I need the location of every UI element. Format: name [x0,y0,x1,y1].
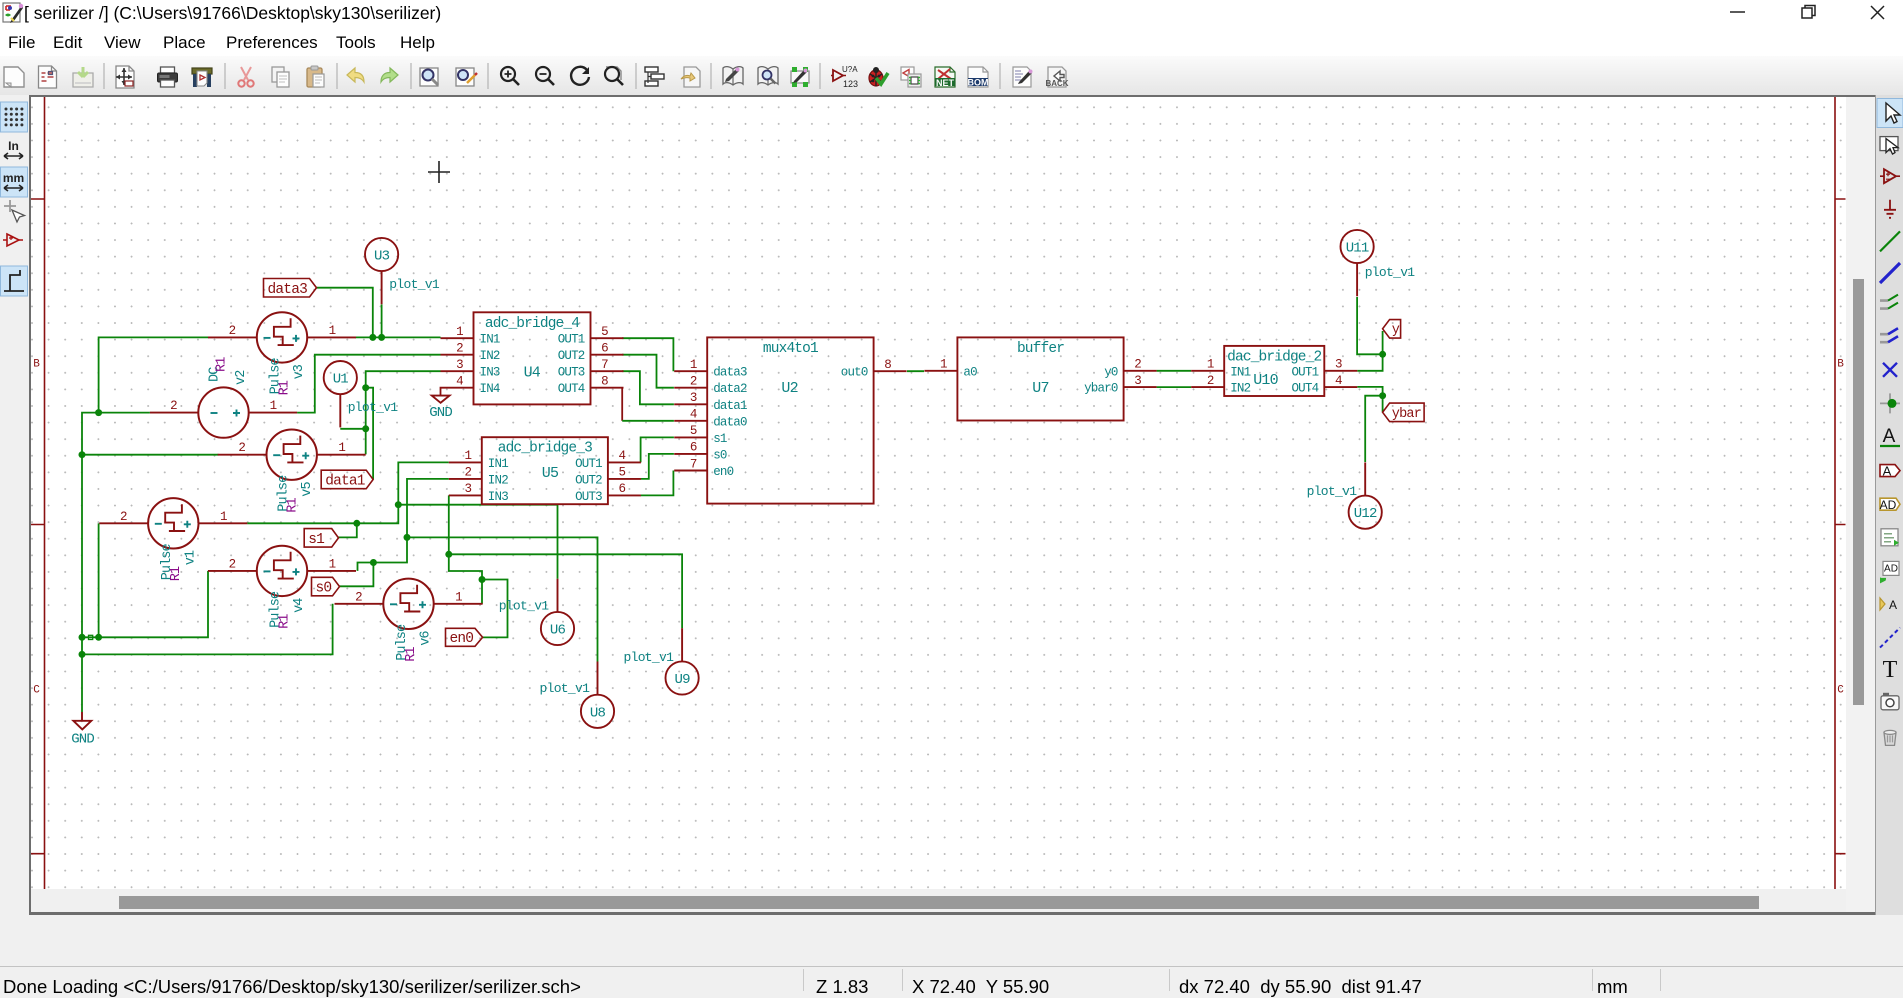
component adc_bridge_3 [449,437,641,504]
svg-text:NET: NET [936,78,955,88]
toolbar symbol library editor icon [723,67,743,85]
plot_v1 probe U1 [324,361,357,427]
right toolbar hierarchical sheet tool [1881,529,1899,546]
toolbar save icon [73,67,93,87]
svg-text:out0: out0 [841,366,868,380]
junction s0 [370,559,377,566]
toolbar print icon [158,67,178,87]
wire GND1 stub [81,708,83,712]
svg-text:6: 6 [690,441,697,455]
svg-text:1: 1 [270,399,277,413]
svg-text:v1: v1 [183,550,198,565]
wire v3 pin2 to left rail [99,337,209,412]
toolbar assign footprints icon [901,67,921,87]
wire U8 tap line [407,537,598,661]
svg-text:plot_v1: plot_v1 [499,599,550,614]
svg-text:C: C [1837,685,1844,697]
toolbar plot icon [192,68,212,87]
wire node ybar to label ybar [1382,396,1384,412]
wire v2 pin1 to U4 IN2 [297,355,440,413]
wire U9 tap line [449,554,682,628]
right toolbar image tool [1881,693,1899,710]
wire buffer ybar0 to U10 IN2 [1157,386,1192,388]
toolbar netlist icon [935,67,955,88]
left toolbar hidden pins toggle [7,234,19,246]
svg-text:U5: U5 [542,465,559,482]
svg-text:BOM: BOM [968,78,989,88]
svg-text:T: T [1883,657,1898,683]
label en0 [446,628,483,647]
svg-text:OUT4: OUT4 [1291,382,1318,396]
svg-text:GND: GND [71,732,94,748]
right toolbar place power port tool [1884,200,1896,218]
svg-text:OUT4: OUT4 [558,382,585,396]
wire U5 OUT2 to mux s0 [641,454,674,479]
svg-text:U2: U2 [781,380,797,397]
junction v5/rail [79,451,86,458]
svg-text:2: 2 [1207,374,1214,388]
svg-text:v6: v6 [419,631,434,646]
svg-text:adc_bridge_4: adc_bridge_4 [485,316,579,332]
svg-text:A: A [1889,598,1897,612]
svg-text:B: B [1837,359,1844,371]
right toolbar graphic line tool [1880,628,1900,648]
svg-text:U1: U1 [333,372,349,388]
toolbar page settings icon [116,66,134,88]
wire bottom row to v4 pin2 [82,571,208,637]
svg-text:U6: U6 [550,623,566,639]
svg-text:AD: AD [1884,563,1898,574]
wire U4 OUT3 to mux data1 [622,371,674,404]
right toolbar no-connect tool [1883,363,1897,377]
label data1 [321,470,373,489]
svg-text:OUT2: OUT2 [575,473,602,487]
component mux4to1 [674,337,906,503]
label y [1383,320,1401,339]
wire U5 IN3 drop [449,495,482,579]
wire buffer y0 to U10 IN1 [1157,370,1192,372]
svg-text:1: 1 [338,441,345,455]
wire v4 pin1 to s0 node [358,537,408,571]
svg-text:adc_bridge_3: adc_bridge_3 [498,441,592,457]
svg-text:1: 1 [456,325,463,339]
svg-text:en0: en0 [450,631,474,647]
svg-text:B: B [33,359,40,371]
svg-text:v3: v3 [292,364,307,379]
svg-text:IN1: IN1 [480,333,500,347]
svg-text:buffer: buffer [1017,341,1064,357]
junction U3 [378,334,385,341]
pulse voltage source v1 [99,498,247,581]
svg-text:U9: U9 [674,672,690,688]
svg-text:U11: U11 [1346,241,1369,257]
junction rail/row2 [79,651,86,658]
svg-text:U4: U4 [524,365,541,382]
wire U4 OUT2 to mux data2 [622,355,674,388]
svg-text:In: In [8,139,19,153]
toolbar new schematic icon [4,67,24,87]
wire s0 label to node [340,563,374,587]
pulse voltage source v6 [335,579,483,662]
svg-text:dac_bridge_2: dac_bridge_2 [1227,349,1321,365]
right toolbar global label tool [1880,464,1900,479]
pulse voltage source v3 [208,312,356,395]
toolbar BOM icon [968,67,989,88]
svg-text:OUT3: OUT3 [575,490,602,504]
svg-text:s1: s1 [308,532,324,548]
svg-text:IN2: IN2 [480,349,500,363]
DC voltage source v2 [150,357,297,438]
svg-text:2: 2 [1134,358,1141,372]
wire outer left rail to GND [82,413,99,708]
svg-text:1: 1 [940,358,947,372]
svg-text:2: 2 [355,590,362,604]
toolbar ERC icon [869,67,888,86]
wire v2 pin2 stub [99,412,150,414]
wire v3 pin1 to U4 IN1 [356,336,441,338]
svg-text:3: 3 [690,391,697,405]
label s1 [304,529,338,548]
svg-text:2: 2 [170,399,177,413]
svg-text:3: 3 [1134,374,1141,388]
left toolbar HV wires toggle (active) [1,266,28,296]
right toolbar net label tool [1880,426,1900,447]
right toolbar highlight net tool [1880,137,1898,155]
svg-text:ybar0: ybar0 [1084,382,1118,396]
svg-text:4: 4 [1335,374,1342,388]
svg-text:v2: v2 [234,370,249,385]
left toolbar grid toggle (active) [1,102,28,132]
left toolbar cursor shape toggle [4,200,16,212]
toolbar find icon [420,68,438,86]
svg-text:1: 1 [464,449,471,463]
svg-text:5: 5 [601,325,608,339]
wire mux out0 to buffer a0 [907,370,924,372]
toolbar leave sheet icon [681,67,700,87]
svg-text:8: 8 [884,358,891,372]
svg-text:R1: R1 [278,380,293,395]
wire node y to label y [1382,331,1384,354]
svg-text:a0: a0 [963,365,977,379]
svg-text:y0: y0 [1104,365,1118,379]
right toolbar place bus tool [1880,263,1900,283]
junction rail/row1 [79,634,86,641]
wire s1 label to v1 wire [339,523,357,537]
svg-text:C: C [33,685,40,697]
svg-text:2: 2 [456,342,463,356]
right toolbar bus-to-bus entry tool [1880,328,1898,342]
ground GND1 [71,712,94,748]
toolbar back-annotate icon [1013,67,1033,87]
wire U10 OUT4 to node ybar [1357,387,1382,396]
wire U3 tap [381,305,383,338]
svg-text:A: A [1883,426,1896,447]
svg-text:U10: U10 [1253,372,1278,389]
toolbar zoom fit icon [605,67,623,85]
svg-text:123: 123 [843,79,858,89]
svg-text:R1: R1 [215,357,230,372]
toolbar annotate icon [831,65,858,89]
svg-text:1: 1 [220,510,227,524]
wire U4 OUT4 drop (red) [621,388,623,421]
svg-text:4: 4 [456,375,463,389]
svg-text:U12: U12 [1354,506,1377,522]
svg-text:1: 1 [1207,358,1214,372]
junction U8 tap [404,534,411,541]
right toolbar wire-to-bus entry tool [1880,295,1898,309]
svg-text:s0: s0 [316,581,332,597]
label data3 [264,279,317,298]
junction en0/v6 [479,576,486,583]
wire v5 pin2 to rail [82,454,218,456]
toolbar zoom out icon [536,67,554,85]
svg-text:U3: U3 [374,249,390,265]
svg-text:3: 3 [464,482,471,496]
sheet border frame [31,97,1846,889]
pulse voltage source v4 [208,546,356,629]
svg-text:6: 6 [619,482,626,496]
svg-text:data1: data1 [325,474,365,490]
junction U1 [362,425,369,432]
toolbar redraw icon [571,67,589,85]
svg-text:2: 2 [238,441,245,455]
junction ybar [1379,392,1386,399]
svg-text:U?A: U?A [842,65,858,74]
plot_v1 probe U3 [365,238,398,304]
svg-text:s1: s1 [713,432,727,446]
wire U5 OUT3 to mux en0 [641,471,674,496]
svg-text:4: 4 [690,408,697,422]
wire U11 tap to node y [1357,297,1383,354]
svg-text:v5: v5 [300,481,315,496]
svg-text:2: 2 [120,510,127,524]
svg-text:3: 3 [1335,358,1342,372]
svg-text:plot_v1: plot_v1 [1307,484,1358,499]
junction U6 tap [395,501,402,508]
junction y [1379,351,1386,358]
svg-text:U8: U8 [590,705,606,721]
svg-text:OUT1: OUT1 [575,457,602,471]
right toolbar junction tool [1880,393,1900,413]
svg-text:data1: data1 [713,399,747,413]
svg-text:data3: data3 [713,366,747,380]
toolbar open schematic icon [39,66,57,88]
svg-text:7: 7 [690,457,697,471]
toolbar back icon [1045,67,1068,88]
svg-text:4: 4 [619,449,626,463]
svg-text:R1: R1 [404,647,419,662]
wire U4 OUT1 to mux data3 [622,338,673,371]
component adc_bridge_4 [441,312,624,404]
svg-text:data2: data2 [713,382,747,396]
svg-text:BACK: BACK [1045,79,1068,88]
svg-text:2: 2 [229,324,236,338]
plot_v1 probe U6 [541,579,574,645]
svg-text:IN3: IN3 [480,366,500,380]
svg-text:plot_v1: plot_v1 [624,650,675,665]
wire U6 tap line [398,505,557,579]
svg-text:GND: GND [429,405,452,421]
svg-text:plot_v1: plot_v1 [348,400,399,415]
left toolbar mm unit (active) [1,167,28,197]
svg-text:y: y [1392,323,1400,338]
svg-text:U7: U7 [1032,380,1048,397]
svg-text:en0: en0 [713,465,733,479]
svg-text:plot_v1: plot_v1 [389,277,440,292]
svg-text:data3: data3 [268,282,308,298]
svg-text:2: 2 [229,557,236,571]
wire v6 pin1 riser [481,580,483,604]
component dac_bridge_2 [1191,346,1357,396]
svg-text:data0: data0 [713,415,747,429]
wire node ybar to U12 [1365,396,1382,462]
component buffer [924,337,1156,420]
svg-text:OUT1: OUT1 [558,333,585,347]
toolbar find replace icon [456,68,477,86]
junction U9 tap [445,551,452,558]
canvas crosshair cursor [428,161,450,183]
junction v1/row1 [95,634,102,641]
svg-text:AD: AD [1880,498,1897,512]
junction v2/rail [95,409,102,416]
svg-text:mux4to1: mux4to1 [763,341,818,357]
svg-text:IN2: IN2 [1230,382,1250,396]
toolbar undo icon [347,68,364,82]
right toolbar place sheet pin tool [1880,598,1897,612]
right toolbar delete tool [1884,730,1896,745]
junction data3 [369,334,376,341]
plot_v1 probe U8 [581,662,614,728]
wire en0 label loop [482,580,508,638]
svg-text:IN2: IN2 [488,473,508,487]
right toolbar hierarchical label tool [1880,498,1900,512]
toolbar hierarchy navigator icon [645,67,664,86]
wire v1 pin2 down [98,523,100,637]
label ybar [1383,403,1425,422]
svg-text:IN1: IN1 [488,457,508,471]
toolbar footprint editor icon [791,67,809,87]
svg-text:OUT3: OUT3 [558,366,585,380]
svg-text:5: 5 [690,424,697,438]
svg-text:A: A [1883,464,1892,479]
svg-text:8: 8 [601,375,608,389]
right toolbar import sheet pin tool [1880,561,1899,583]
wire data1 branch [366,388,373,480]
svg-text:2: 2 [690,375,697,389]
svg-text:3: 3 [456,358,463,372]
svg-text:1: 1 [329,324,336,338]
junction data1 [362,384,369,391]
wire U1 tap [340,428,365,430]
toolbar redo icon [381,68,398,82]
svg-text:R1: R1 [278,614,293,629]
right toolbar place wire tool [1880,231,1900,251]
svg-text:7: 7 [601,358,608,372]
toolbar paste icon [307,66,324,87]
toolbar cut icon [238,67,253,87]
right toolbar select cursor (active) [1877,99,1903,128]
toolbar copy icon [272,67,289,87]
svg-text:6: 6 [601,342,608,356]
plot_v1 probe U11 [1341,230,1374,296]
wire U10 OUT1 to node y [1357,354,1382,371]
svg-text:v4: v4 [292,598,307,613]
wire node to U5 IN2 [407,479,449,538]
svg-text:mm: mm [3,171,24,185]
right toolbar text tool [1883,657,1898,683]
svg-text:plot_v1: plot_v1 [540,681,591,696]
svg-text:s0: s0 [713,448,727,462]
svg-text:OUT1: OUT1 [1291,365,1318,379]
plot_v1 probe U9 [666,628,699,694]
svg-text:1: 1 [329,557,336,571]
wire bottom row to v6 pin2 [82,604,333,655]
wire U4 IN3 riser [366,371,441,454]
wire v1 pin1 to U5 IN1 [247,462,449,523]
svg-text:IN4: IN4 [480,382,500,396]
svg-text:IN3: IN3 [488,490,508,504]
dangling wire end marker [89,635,93,639]
wire to mux data0 [622,420,674,422]
pulse voltage source v5 [218,430,366,513]
svg-text:IN1: IN1 [1230,365,1250,379]
svg-text:ybar: ybar [1392,407,1421,422]
svg-text:1: 1 [455,590,462,604]
svg-text:R1: R1 [169,566,184,581]
wire U5 OUT1 to mux s1 [641,437,674,462]
wire data3 label to node [317,288,373,338]
svg-text:1: 1 [690,358,697,372]
svg-text:R1: R1 [286,497,301,512]
toolbar symbol library browser icon [758,67,778,85]
ground GND2 at U4 IN4 [429,388,473,421]
plot_v1 probe U12 [1349,462,1382,528]
label s0 [312,577,340,596]
svg-text:plot_v1: plot_v1 [1365,265,1416,280]
svg-text:2: 2 [464,466,471,480]
right toolbar place component tool [1880,169,1900,183]
junction s1 [353,520,360,527]
svg-text:5: 5 [619,466,626,480]
svg-text:OUT2: OUT2 [558,349,585,363]
toolbar zoom in icon [501,67,519,85]
